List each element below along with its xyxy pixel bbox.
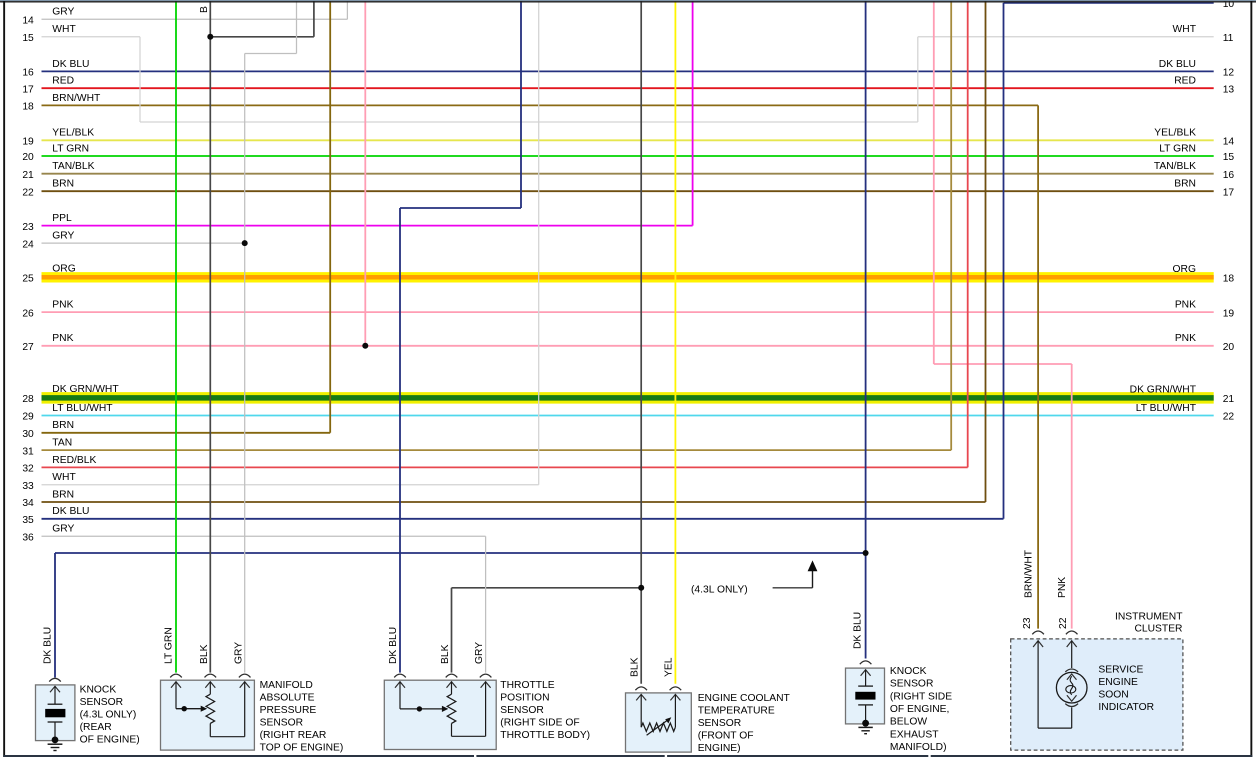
svg-text:SENSOR: SENSOR [698,718,742,729]
svg-text:KNOCK: KNOCK [890,666,927,677]
svg-text:KNOCK: KNOCK [80,684,117,695]
svg-text:35: 35 [22,515,34,526]
svg-text:GRY: GRY [52,7,74,18]
svg-text:22: 22 [1223,412,1235,423]
svg-text:INSTRUMENT: INSTRUMENT [1115,612,1183,623]
svg-text:CLUSTER: CLUSTER [1134,624,1182,635]
svg-text:PNK: PNK [1175,333,1196,344]
svg-text:BLK: BLK [199,644,210,664]
svg-text:TAN/BLK: TAN/BLK [52,161,94,172]
svg-text:TOP OF ENGINE): TOP OF ENGINE) [260,742,344,753]
svg-text:22: 22 [22,187,34,198]
svg-text:16: 16 [22,68,34,79]
svg-text:YEL: YEL [664,657,675,677]
svg-text:14: 14 [22,16,34,27]
svg-text:16: 16 [1223,170,1235,181]
svg-text:GRY: GRY [233,642,244,664]
svg-text:LT BLU/WHT: LT BLU/WHT [52,403,113,414]
svg-text:SOON: SOON [1098,690,1128,701]
svg-text:WHT: WHT [1173,24,1197,35]
svg-text:LT GRN: LT GRN [52,143,89,154]
svg-text:PRESSURE: PRESSURE [260,705,317,716]
svg-text:GRY: GRY [474,642,485,664]
svg-text:15: 15 [1223,152,1235,163]
svg-text:DK BLU: DK BLU [388,627,399,664]
svg-text:PNK: PNK [1175,300,1196,311]
svg-text:33: 33 [22,481,34,492]
svg-text:27: 27 [22,342,34,353]
svg-text:ENGINE COOLANT: ENGINE COOLANT [698,693,791,704]
svg-text:12: 12 [1223,68,1235,79]
svg-text:DK BLU: DK BLU [1159,59,1196,70]
svg-text:25: 25 [22,274,34,285]
svg-text:BRN: BRN [1174,179,1196,190]
svg-text:MANIFOLD: MANIFOLD [260,680,313,691]
svg-text:TAN/BLK: TAN/BLK [1154,161,1196,172]
svg-text:24: 24 [22,239,34,250]
svg-text:19: 19 [22,137,34,148]
svg-text:SENSOR: SENSOR [80,697,124,708]
svg-text:15: 15 [22,33,34,44]
svg-text:BRN: BRN [52,179,74,190]
svg-text:PNK: PNK [52,300,73,311]
svg-text:SENSOR: SENSOR [500,705,544,716]
svg-text:SERVICE: SERVICE [1098,665,1143,676]
svg-text:BRN: BRN [52,489,74,500]
svg-text:(4.3L ONLY): (4.3L ONLY) [691,584,748,595]
svg-text:THROTTLE BODY): THROTTLE BODY) [500,730,590,741]
svg-text:B: B [199,6,210,13]
svg-text:MANIFOLD): MANIFOLD) [890,742,947,753]
svg-text:DK GRN/WHT: DK GRN/WHT [52,384,119,395]
svg-text:18: 18 [22,102,34,113]
svg-text:WHT: WHT [52,472,76,483]
svg-text:ENGINE: ENGINE [1098,677,1138,688]
svg-text:21: 21 [22,170,34,181]
svg-text:28: 28 [22,394,34,405]
svg-text:LT GRN: LT GRN [1159,143,1196,154]
svg-text:21: 21 [1223,394,1235,405]
svg-text:RED: RED [1174,76,1196,87]
svg-text:OF ENGINE): OF ENGINE) [80,734,140,745]
svg-text:BELOW: BELOW [890,717,927,728]
svg-text:GRY: GRY [52,231,74,242]
svg-text:31: 31 [22,446,34,457]
svg-text:14: 14 [1223,137,1235,148]
svg-text:17: 17 [1223,187,1235,198]
svg-text:30: 30 [22,429,34,440]
svg-text:23: 23 [22,222,34,233]
svg-text:SENSOR: SENSOR [890,679,934,690]
svg-text:(RIGHT REAR: (RIGHT REAR [260,730,327,741]
svg-text:(RIGHT SIDE: (RIGHT SIDE [890,691,952,702]
svg-text:ORG: ORG [1173,264,1196,275]
svg-text:34: 34 [22,498,34,509]
svg-text:20: 20 [22,152,34,163]
svg-text:ABSOLUTE: ABSOLUTE [260,692,315,703]
svg-text:TAN: TAN [52,438,72,449]
svg-text:ORG: ORG [52,264,75,275]
svg-text:RED/BLK: RED/BLK [52,455,96,466]
svg-text:OF ENGINE,: OF ENGINE, [890,704,950,715]
svg-text:YEL/BLK: YEL/BLK [1154,128,1196,139]
svg-text:DK BLU: DK BLU [42,627,53,664]
svg-text:BLK: BLK [440,644,451,664]
svg-text:GRY: GRY [52,524,74,535]
svg-text:BLK: BLK [630,657,641,677]
svg-text:32: 32 [22,464,34,475]
svg-text:19: 19 [1223,308,1235,319]
svg-text:ENGINE): ENGINE) [698,743,741,754]
svg-text:26: 26 [22,308,34,319]
svg-text:DK BLU: DK BLU [852,612,863,649]
svg-text:23: 23 [1022,617,1033,629]
svg-text:18: 18 [1223,274,1235,285]
svg-text:(FRONT OF: (FRONT OF [698,730,754,741]
svg-text:(4.3L ONLY): (4.3L ONLY) [80,709,137,720]
svg-text:DK GRN/WHT: DK GRN/WHT [1130,385,1197,396]
svg-text:BRN/WHT: BRN/WHT [1023,549,1034,598]
svg-text:POSITION: POSITION [500,692,549,703]
svg-text:13: 13 [1223,84,1235,95]
svg-text:RED: RED [52,76,74,87]
svg-text:22: 22 [1058,617,1069,629]
svg-text:PNK: PNK [52,333,73,344]
svg-text:17: 17 [22,84,34,95]
svg-text:INDICATOR: INDICATOR [1098,702,1154,713]
svg-text:SENSOR: SENSOR [260,717,304,728]
svg-text:DK BLU: DK BLU [52,506,89,517]
svg-text:PPL: PPL [52,213,72,224]
svg-text:LT BLU/WHT: LT BLU/WHT [1136,403,1197,414]
svg-text:11: 11 [1223,33,1234,44]
svg-text:WHT: WHT [52,24,76,35]
svg-text:LT GRN: LT GRN [164,627,175,664]
svg-text:BRN/WHT: BRN/WHT [52,93,101,104]
svg-text:YEL/BLK: YEL/BLK [52,128,94,139]
svg-text:TEMPERATURE: TEMPERATURE [698,705,775,716]
svg-text:(REAR: (REAR [80,722,112,733]
svg-text:36: 36 [22,533,34,544]
svg-text:PNK: PNK [1057,577,1068,598]
svg-text:(RIGHT SIDE OF: (RIGHT SIDE OF [500,717,579,728]
svg-text:DK BLU: DK BLU [52,59,89,70]
svg-text:BRN: BRN [52,420,74,431]
svg-text:29: 29 [22,412,34,423]
svg-text:THROTTLE: THROTTLE [500,680,554,691]
svg-text:20: 20 [1223,342,1235,353]
svg-text:EXHAUST: EXHAUST [890,729,939,740]
